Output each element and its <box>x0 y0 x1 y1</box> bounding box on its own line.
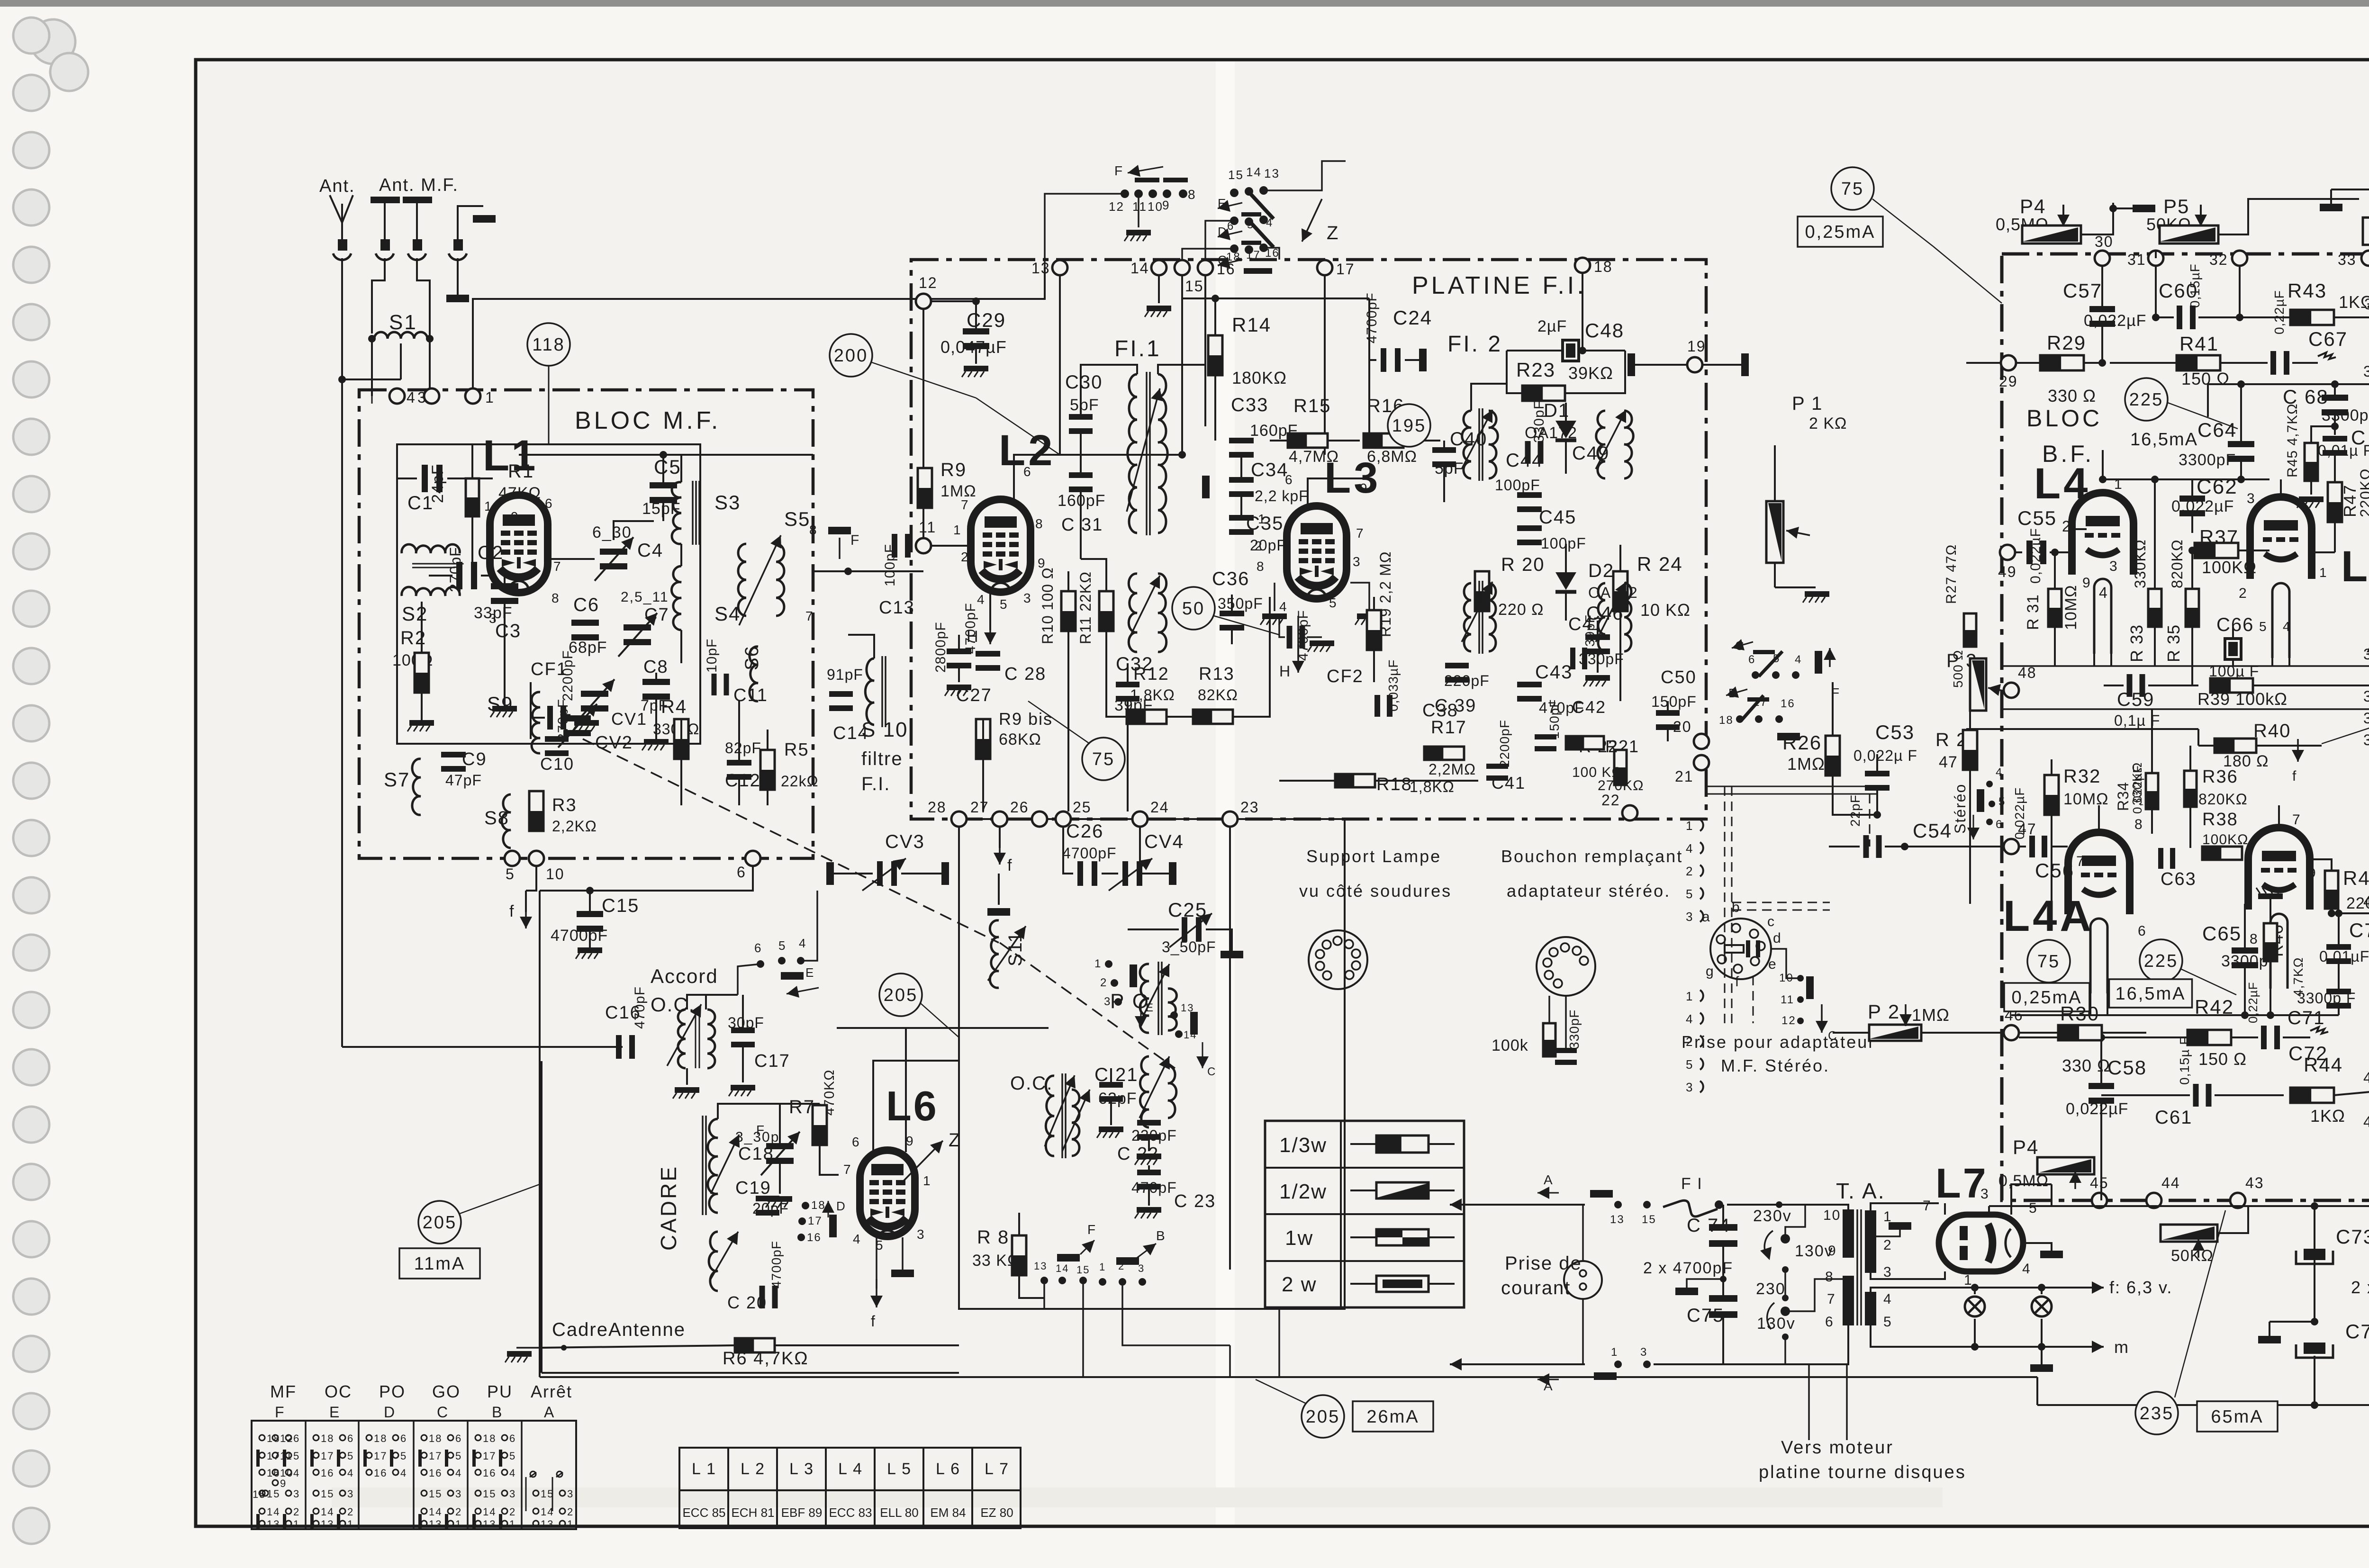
svg-text:1MΩ: 1MΩ <box>1912 1005 1950 1025</box>
terminal 48 <box>2004 683 2019 698</box>
svg-text:1/2w: 1/2w <box>1279 1180 1327 1203</box>
svg-text:C 31: C 31 <box>1061 515 1103 535</box>
speaker top right <box>2363 217 2369 245</box>
svg-text:28: 28 <box>928 799 947 816</box>
svg-text:C44: C44 <box>1506 450 1543 471</box>
svg-text:C53: C53 <box>1875 721 1915 743</box>
svg-text:4700pF: 4700pF <box>1364 292 1380 343</box>
svg-text:11: 11 <box>919 519 936 536</box>
svg-text:Stéréo: Stéréo <box>1952 784 1969 834</box>
svg-text:R32: R32 <box>2063 766 2101 787</box>
svg-text:ECC 83: ECC 83 <box>829 1505 872 1520</box>
svg-text:41: 41 <box>2363 1069 2369 1086</box>
svg-text:S1: S1 <box>389 311 417 334</box>
wire mains bus bottom <box>1450 1363 1485 1365</box>
svg-text:R17: R17 <box>1431 718 1467 738</box>
svg-text:10: 10 <box>546 865 565 883</box>
svg-text:filtre: filtre <box>861 748 903 769</box>
svg-text:R 20: R 20 <box>1501 554 1545 575</box>
svg-text:7: 7 <box>1827 1291 1836 1307</box>
terminal 18 <box>1575 258 1590 273</box>
svg-text:P 2: P 2 <box>1868 1000 1900 1023</box>
svg-text:C24: C24 <box>1393 306 1432 329</box>
switch B row <box>1736 715 1744 723</box>
wire 12 to left <box>1045 194 1125 268</box>
svg-text:350pF: 350pF <box>1218 595 1263 612</box>
svg-text:6: 6 <box>754 941 762 955</box>
svg-text:100 KΩ: 100 KΩ <box>1572 765 1623 780</box>
svg-text:8: 8 <box>809 523 818 537</box>
svg-text:0,22µF: 0,22µF <box>2272 290 2287 334</box>
svg-text:14: 14 <box>429 1506 442 1518</box>
svg-text:R34: R34 <box>2115 782 2132 811</box>
coil S9 <box>532 692 540 753</box>
svg-text:13: 13 <box>1610 1213 1625 1226</box>
svg-text:26mA: 26mA <box>1366 1407 1419 1427</box>
svg-text:0,022µF: 0,022µF <box>2012 787 2027 839</box>
circled 75 top <box>1831 167 1874 210</box>
terminal 19 <box>1687 357 1702 372</box>
svg-text:C43: C43 <box>1535 662 1573 683</box>
svg-text:1: 1 <box>485 389 495 406</box>
svg-text:6: 6 <box>347 1433 354 1444</box>
terminal 32 <box>2232 251 2247 266</box>
lamp 2 <box>2032 1297 2052 1316</box>
svg-text:16,5mA: 16,5mA <box>2116 984 2186 1004</box>
f arrow under terminal 27 <box>999 827 1001 848</box>
svg-text:500 Ω: 500 Ω <box>1951 650 1965 688</box>
svg-text:C42: C42 <box>1572 697 1606 717</box>
svg-text:R26: R26 <box>1782 731 1822 754</box>
terminal 10 <box>529 851 544 866</box>
bottom switch row F B <box>1040 1277 1048 1284</box>
wire L5 top to grid bus <box>2280 479 2282 497</box>
svg-text:L 1: L 1 <box>692 1460 716 1478</box>
svg-text:2: 2 <box>961 550 969 564</box>
svg-text:3: 3 <box>917 1227 925 1242</box>
svg-text:e: e <box>1768 956 1777 972</box>
svg-text:22kΩ: 22kΩ <box>781 773 819 790</box>
svg-text:C48: C48 <box>1585 319 1624 342</box>
svg-text:130v: 130v <box>1757 1315 1796 1333</box>
svg-text:O.C.: O.C. <box>651 993 695 1016</box>
svg-text:C36: C36 <box>1212 568 1249 589</box>
svg-text:C71: C71 <box>2288 1008 2325 1028</box>
svg-text:2 x 50µF: 2 x 50µF <box>2351 1278 2369 1297</box>
svg-text:R 31: R 31 <box>2024 594 2042 630</box>
svg-text:C3: C3 <box>495 621 521 641</box>
svg-text:f: f <box>2292 768 2297 784</box>
svg-text:C57: C57 <box>2063 279 2102 302</box>
wires bottom switch to bus <box>1082 1284 1084 1377</box>
svg-text:0,25mA: 0,25mA <box>1805 222 1876 242</box>
svg-text:5: 5 <box>1998 795 2006 808</box>
svg-text:1: 1 <box>455 1518 462 1530</box>
svg-text:f: f <box>1007 856 1013 874</box>
svg-text:65mA: 65mA <box>2211 1407 2263 1427</box>
FI.2 second transformer <box>1464 583 1471 651</box>
pickup connector with chassis <box>458 206 483 241</box>
svg-text:R27 47Ω: R27 47Ω <box>1944 544 1959 604</box>
svg-text:3: 3 <box>455 1488 462 1500</box>
svg-text:6: 6 <box>1023 464 1032 479</box>
svg-text:6: 6 <box>455 1433 462 1444</box>
svg-text:C66: C66 <box>2216 614 2254 635</box>
svg-text:8: 8 <box>1825 1269 1834 1285</box>
svg-text:S8: S8 <box>484 808 509 829</box>
svg-text:22: 22 <box>1601 792 1620 809</box>
svg-text:R 24: R 24 <box>1637 553 1683 575</box>
svg-text:32: 32 <box>2209 251 2228 268</box>
cadre section box <box>542 1372 959 1374</box>
svg-text:3: 3 <box>2109 559 2118 574</box>
svg-text:2 x 4700pF: 2 x 4700pF <box>1643 1259 1733 1277</box>
svg-text:6: 6 <box>1825 1314 1834 1330</box>
svg-text:3: 3 <box>1980 1186 1989 1202</box>
svg-text:3: 3 <box>2247 491 2256 506</box>
oscillator section box <box>959 819 1345 1309</box>
svg-text:14: 14 <box>267 1506 280 1518</box>
wire L4A inner arch down <box>2089 993 2091 1015</box>
svg-text:2200pF: 2200pF <box>560 650 576 701</box>
heater winding wires <box>1871 1288 1975 1292</box>
wire to C16 row <box>342 1046 623 1048</box>
svg-text:17: 17 <box>429 1450 442 1462</box>
svg-text:23: 23 <box>1240 799 1259 816</box>
terminal 44 <box>2146 1193 2161 1208</box>
svg-text:14: 14 <box>1246 165 1262 179</box>
svg-text:1: 1 <box>509 1518 516 1530</box>
svg-text:E: E <box>329 1404 340 1421</box>
wire L2 pin6 up <box>1014 455 1182 502</box>
svg-text:2: 2 <box>1686 1035 1693 1049</box>
svg-text:C56: C56 <box>2035 859 2074 882</box>
svg-text:S2: S2 <box>402 603 428 625</box>
svg-text:8: 8 <box>2134 817 2143 832</box>
terminal 46 <box>2004 1025 2019 1040</box>
cadre coil big <box>708 1119 718 1213</box>
S10 coil <box>865 658 874 725</box>
svg-text:21: 21 <box>1675 768 1694 785</box>
svg-text:8: 8 <box>1257 559 1265 574</box>
switch table MF extra pins <box>272 1435 278 1441</box>
svg-text:2: 2 <box>1100 976 1107 989</box>
svg-text:R11 22KΩ: R11 22KΩ <box>1077 571 1094 644</box>
svg-text:R43: R43 <box>2288 279 2327 302</box>
svg-text:14: 14 <box>483 1506 496 1518</box>
svg-text:0,022µ F: 0,022µ F <box>1854 747 1917 764</box>
svg-text:C45: C45 <box>1539 507 1576 528</box>
switch cluster mid right C B F <box>1752 671 1759 679</box>
legend resistor 2w <box>1350 1283 1455 1285</box>
svg-text:82KΩ: 82KΩ <box>1198 686 1238 703</box>
terminal 45 <box>2092 1193 2107 1208</box>
terminal 16 <box>1198 260 1213 275</box>
svg-text:S5: S5 <box>784 508 810 530</box>
svg-text:35: 35 <box>2363 363 2369 380</box>
svg-text:1: 1 <box>567 1518 574 1530</box>
svg-text:5: 5 <box>1000 597 1008 612</box>
terminal 1 <box>465 388 480 404</box>
svg-text:10MΩ: 10MΩ <box>2062 585 2080 630</box>
svg-text:A: A <box>544 1404 555 1421</box>
svg-text:C: C <box>1207 1065 1216 1078</box>
svg-text:courant: courant <box>1501 1278 1571 1298</box>
svg-text:M.F. Stéréo.: M.F. Stéréo. <box>1721 1056 1830 1075</box>
bus 19 row <box>1631 364 1687 366</box>
boxed 65mA <box>2197 1401 2278 1432</box>
wire L4 inner arch to bus <box>2093 654 2095 666</box>
svg-text:PLATINE F.I.: PLATINE F.I. <box>1412 272 1587 299</box>
svg-text:6: 6 <box>400 1433 407 1444</box>
svg-text:1: 1 <box>953 523 962 537</box>
svg-text:4: 4 <box>2099 584 2108 601</box>
svg-text:f: f <box>1735 974 1740 990</box>
svg-text:L 4: L 4 <box>838 1460 863 1478</box>
svg-text:R38: R38 <box>2202 810 2238 829</box>
svg-text:4: 4 <box>1686 1012 1693 1026</box>
svg-text:1: 1 <box>1094 957 1102 970</box>
tube L4A half <box>2068 832 2130 914</box>
svg-text:7: 7 <box>1923 1198 1932 1214</box>
svg-text:2800pF: 2800pF <box>933 622 949 673</box>
terminal 11 <box>916 538 931 553</box>
PLATINE F.I. dashed box <box>911 260 1706 819</box>
svg-text:14: 14 <box>1056 1262 1069 1274</box>
svg-text:R13: R13 <box>1199 664 1235 684</box>
svg-text:4: 4 <box>799 936 806 950</box>
svg-text:4700pF: 4700pF <box>1062 845 1117 862</box>
svg-text:1: 1 <box>1099 1261 1106 1273</box>
tube L7 EZ80 <box>1939 1215 2023 1271</box>
coil PO lower <box>1140 1056 1149 1127</box>
boxed 0,25mA top <box>1798 216 1883 247</box>
svg-text:C 23: C 23 <box>1174 1191 1216 1211</box>
svg-text:9: 9 <box>280 1478 287 1489</box>
svg-text:F: F <box>756 1123 765 1137</box>
svg-text:C6: C6 <box>573 595 599 615</box>
svg-text:3: 3 <box>509 1488 516 1500</box>
svg-text:5: 5 <box>1329 595 1338 610</box>
svg-text:1: 1 <box>1686 819 1693 833</box>
svg-text:18: 18 <box>1719 714 1734 727</box>
svg-text:R4: R4 <box>661 696 687 717</box>
svg-text:9: 9 <box>906 1134 914 1148</box>
DIN connector prise adaptateur <box>1710 919 1771 979</box>
terminal 6 <box>745 851 760 866</box>
svg-text:10 KΩ: 10 KΩ <box>1640 600 1691 620</box>
svg-text:330 Ω: 330 Ω <box>2062 1056 2110 1075</box>
svg-text:2200pF: 2200pF <box>1497 720 1512 767</box>
svg-text:CV3: CV3 <box>885 831 925 852</box>
coil FI2 right <box>1596 411 1605 478</box>
svg-text:4: 4 <box>400 1467 407 1479</box>
f 6,3v arrow <box>2042 1287 2082 1289</box>
svg-text:CV4: CV4 <box>1144 831 1184 852</box>
tube L4 ECC83 half <box>2072 493 2134 575</box>
svg-text:10MΩ: 10MΩ <box>2063 790 2109 808</box>
svg-text:15: 15 <box>1076 1264 1090 1276</box>
switch cluster top F row dots <box>1121 189 1129 198</box>
svg-text:330pF: 330pF <box>1531 400 1547 443</box>
circled 235 <box>2135 1392 2178 1434</box>
terminal 12 <box>916 294 931 309</box>
svg-text:16: 16 <box>1265 247 1280 260</box>
svg-text:7: 7 <box>961 497 969 512</box>
svg-text:330 Ω: 330 Ω <box>2048 386 2096 406</box>
svg-text:10: 10 <box>1823 1208 1841 1223</box>
svg-text:C10: C10 <box>540 754 574 774</box>
svg-text:C14: C14 <box>833 723 869 743</box>
m arrow <box>1975 1346 2082 1348</box>
svg-text:15: 15 <box>1185 278 1204 295</box>
svg-text:3: 3 <box>1883 1264 1892 1280</box>
svg-text:A: A <box>1544 1172 1554 1187</box>
svg-text:16: 16 <box>483 1467 496 1479</box>
svg-text:39KΩ: 39KΩ <box>1568 363 1613 383</box>
svg-text:CadreAntenne: CadreAntenne <box>552 1319 686 1340</box>
svg-text:5: 5 <box>1883 1314 1892 1330</box>
svg-text:16: 16 <box>321 1467 334 1479</box>
circled 50 <box>1172 587 1215 630</box>
svg-text:C59: C59 <box>2117 689 2154 710</box>
svg-text:C26: C26 <box>1066 821 1103 842</box>
svg-text:5: 5 <box>778 938 786 953</box>
inner box S2 L1 <box>397 444 700 744</box>
svg-text:GO: GO <box>432 1382 461 1401</box>
svg-text:17: 17 <box>483 1450 496 1462</box>
svg-text:Ant.: Ant. <box>319 176 355 196</box>
terminal 13 <box>1052 260 1067 275</box>
svg-text:d: d <box>1773 930 1782 946</box>
svg-text:150 Ω: 150 Ω <box>2181 369 2230 388</box>
svg-text:17: 17 <box>808 1215 823 1227</box>
svg-text:6: 6 <box>737 864 746 881</box>
coil S5 with arrow <box>738 544 746 616</box>
band switch table <box>252 1421 576 1529</box>
svg-text:4700pF: 4700pF <box>963 603 978 654</box>
svg-text:9: 9 <box>2308 865 2317 880</box>
wire L4A top up <box>2098 805 2100 832</box>
small contacts 1 4 2 5 3 rows <box>1700 820 1703 831</box>
svg-text:R5: R5 <box>784 740 809 760</box>
svg-text:C73: C73 <box>2345 1320 2369 1343</box>
svg-text:68KΩ: 68KΩ <box>999 730 1041 748</box>
svg-text:1/3w: 1/3w <box>1279 1134 1327 1157</box>
svg-text:F I: F I <box>1681 1175 1703 1193</box>
svg-text:50: 50 <box>1182 599 1205 619</box>
svg-text:R44: R44 <box>2304 1054 2343 1076</box>
svg-text:D: D <box>836 1199 846 1213</box>
svg-text:100KΩ: 100KΩ <box>2202 832 2249 847</box>
wires MF to FI <box>813 570 923 572</box>
svg-text:EZ 80: EZ 80 <box>980 1505 1013 1520</box>
terminal 14 <box>1151 260 1166 275</box>
svg-text:4: 4 <box>1883 1291 1892 1307</box>
circled 225 lower <box>2140 939 2182 982</box>
svg-text:c: c <box>1767 914 1775 929</box>
L3 pin grounds <box>1274 583 1275 611</box>
svg-text:12: 12 <box>1781 1014 1796 1027</box>
svg-text:C: C <box>437 1404 449 1421</box>
svg-text:200: 200 <box>834 346 868 366</box>
switch cluster E row <box>1230 189 1239 197</box>
bus m lower <box>959 1308 1345 1310</box>
circled 200 <box>830 334 872 377</box>
svg-text:D: D <box>384 1404 396 1421</box>
svg-text:29: 29 <box>1999 373 2018 390</box>
svg-text:2: 2 <box>1686 864 1693 878</box>
bus bottom right horizontal <box>2037 1404 2369 1406</box>
svg-text:5: 5 <box>509 1450 516 1462</box>
svg-text:100pF: 100pF <box>1541 535 1586 552</box>
terminal 3 <box>424 388 439 404</box>
svg-text:3: 3 <box>567 1488 574 1500</box>
svg-text:1: 1 <box>1258 512 1266 526</box>
svg-text:8: 8 <box>1188 187 1196 202</box>
wire 35 to C68 R45 area <box>2208 383 2369 385</box>
svg-text:2µF: 2µF <box>1537 317 1567 335</box>
svg-text:75: 75 <box>1092 749 1115 769</box>
svg-text:R40: R40 <box>2253 721 2291 741</box>
svg-text:15: 15 <box>1228 168 1244 182</box>
svg-text:R30: R30 <box>2060 1002 2099 1025</box>
FI.1 transformer lower <box>1129 574 1137 652</box>
svg-text:0,1µ F: 0,1µ F <box>2114 712 2160 729</box>
bouchon socket diagram <box>1537 937 1595 996</box>
svg-text:230v: 230v <box>1753 1207 1792 1225</box>
wattage legend box <box>1265 1121 1464 1307</box>
svg-text:S6: S6 <box>741 645 762 670</box>
svg-text:1: 1 <box>2319 565 2328 580</box>
svg-text:MF: MF <box>270 1382 297 1401</box>
wire antenna down <box>341 258 343 379</box>
svg-text:16: 16 <box>1217 261 1236 278</box>
svg-text:PU: PU <box>487 1382 513 1401</box>
svg-text:C4: C4 <box>637 540 663 561</box>
svg-text:37: 37 <box>2363 688 2369 705</box>
svg-text:0,15µ F: 0,15µ F <box>2177 1036 2192 1085</box>
svg-text:R6 4,7KΩ: R6 4,7KΩ <box>723 1349 809 1369</box>
svg-text:ECH 81: ECH 81 <box>731 1505 774 1520</box>
svg-text:ELL 80: ELL 80 <box>880 1505 918 1520</box>
svg-text:C38: C38 <box>1422 701 1458 721</box>
FI.2 transformer first <box>1462 411 1471 478</box>
svg-text:5: 5 <box>1686 887 1693 901</box>
svg-text:E: E <box>1146 1001 1154 1014</box>
svg-text:CADRE: CADRE <box>656 1165 681 1251</box>
wire L4A bottom row <box>2011 1014 2245 1016</box>
svg-text:L4A: L4A <box>2003 892 2094 940</box>
svg-text:6: 6 <box>1996 818 2003 831</box>
page margins lighter <box>0 7 196 1568</box>
vertical wires under FI <box>958 827 960 1309</box>
svg-text:Z: Z <box>1327 223 1339 243</box>
svg-text:50KΩ: 50KΩ <box>2171 1247 2214 1265</box>
svg-text:1MΩ: 1MΩ <box>1787 754 1825 774</box>
svg-text:R36: R36 <box>2202 767 2238 787</box>
svg-text:f: f <box>509 902 515 920</box>
wire L5A top up <box>2278 805 2280 828</box>
svg-text:12: 12 <box>1109 199 1124 214</box>
boxed 11mA <box>399 1248 480 1279</box>
svg-text:3: 3 <box>293 1488 300 1500</box>
svg-text:g: g <box>1706 964 1715 979</box>
svg-text:11: 11 <box>1132 199 1147 214</box>
wire 18 down <box>1582 273 1583 351</box>
svg-text:2 w: 2 w <box>1282 1273 1317 1296</box>
svg-text:5: 5 <box>400 1450 407 1462</box>
